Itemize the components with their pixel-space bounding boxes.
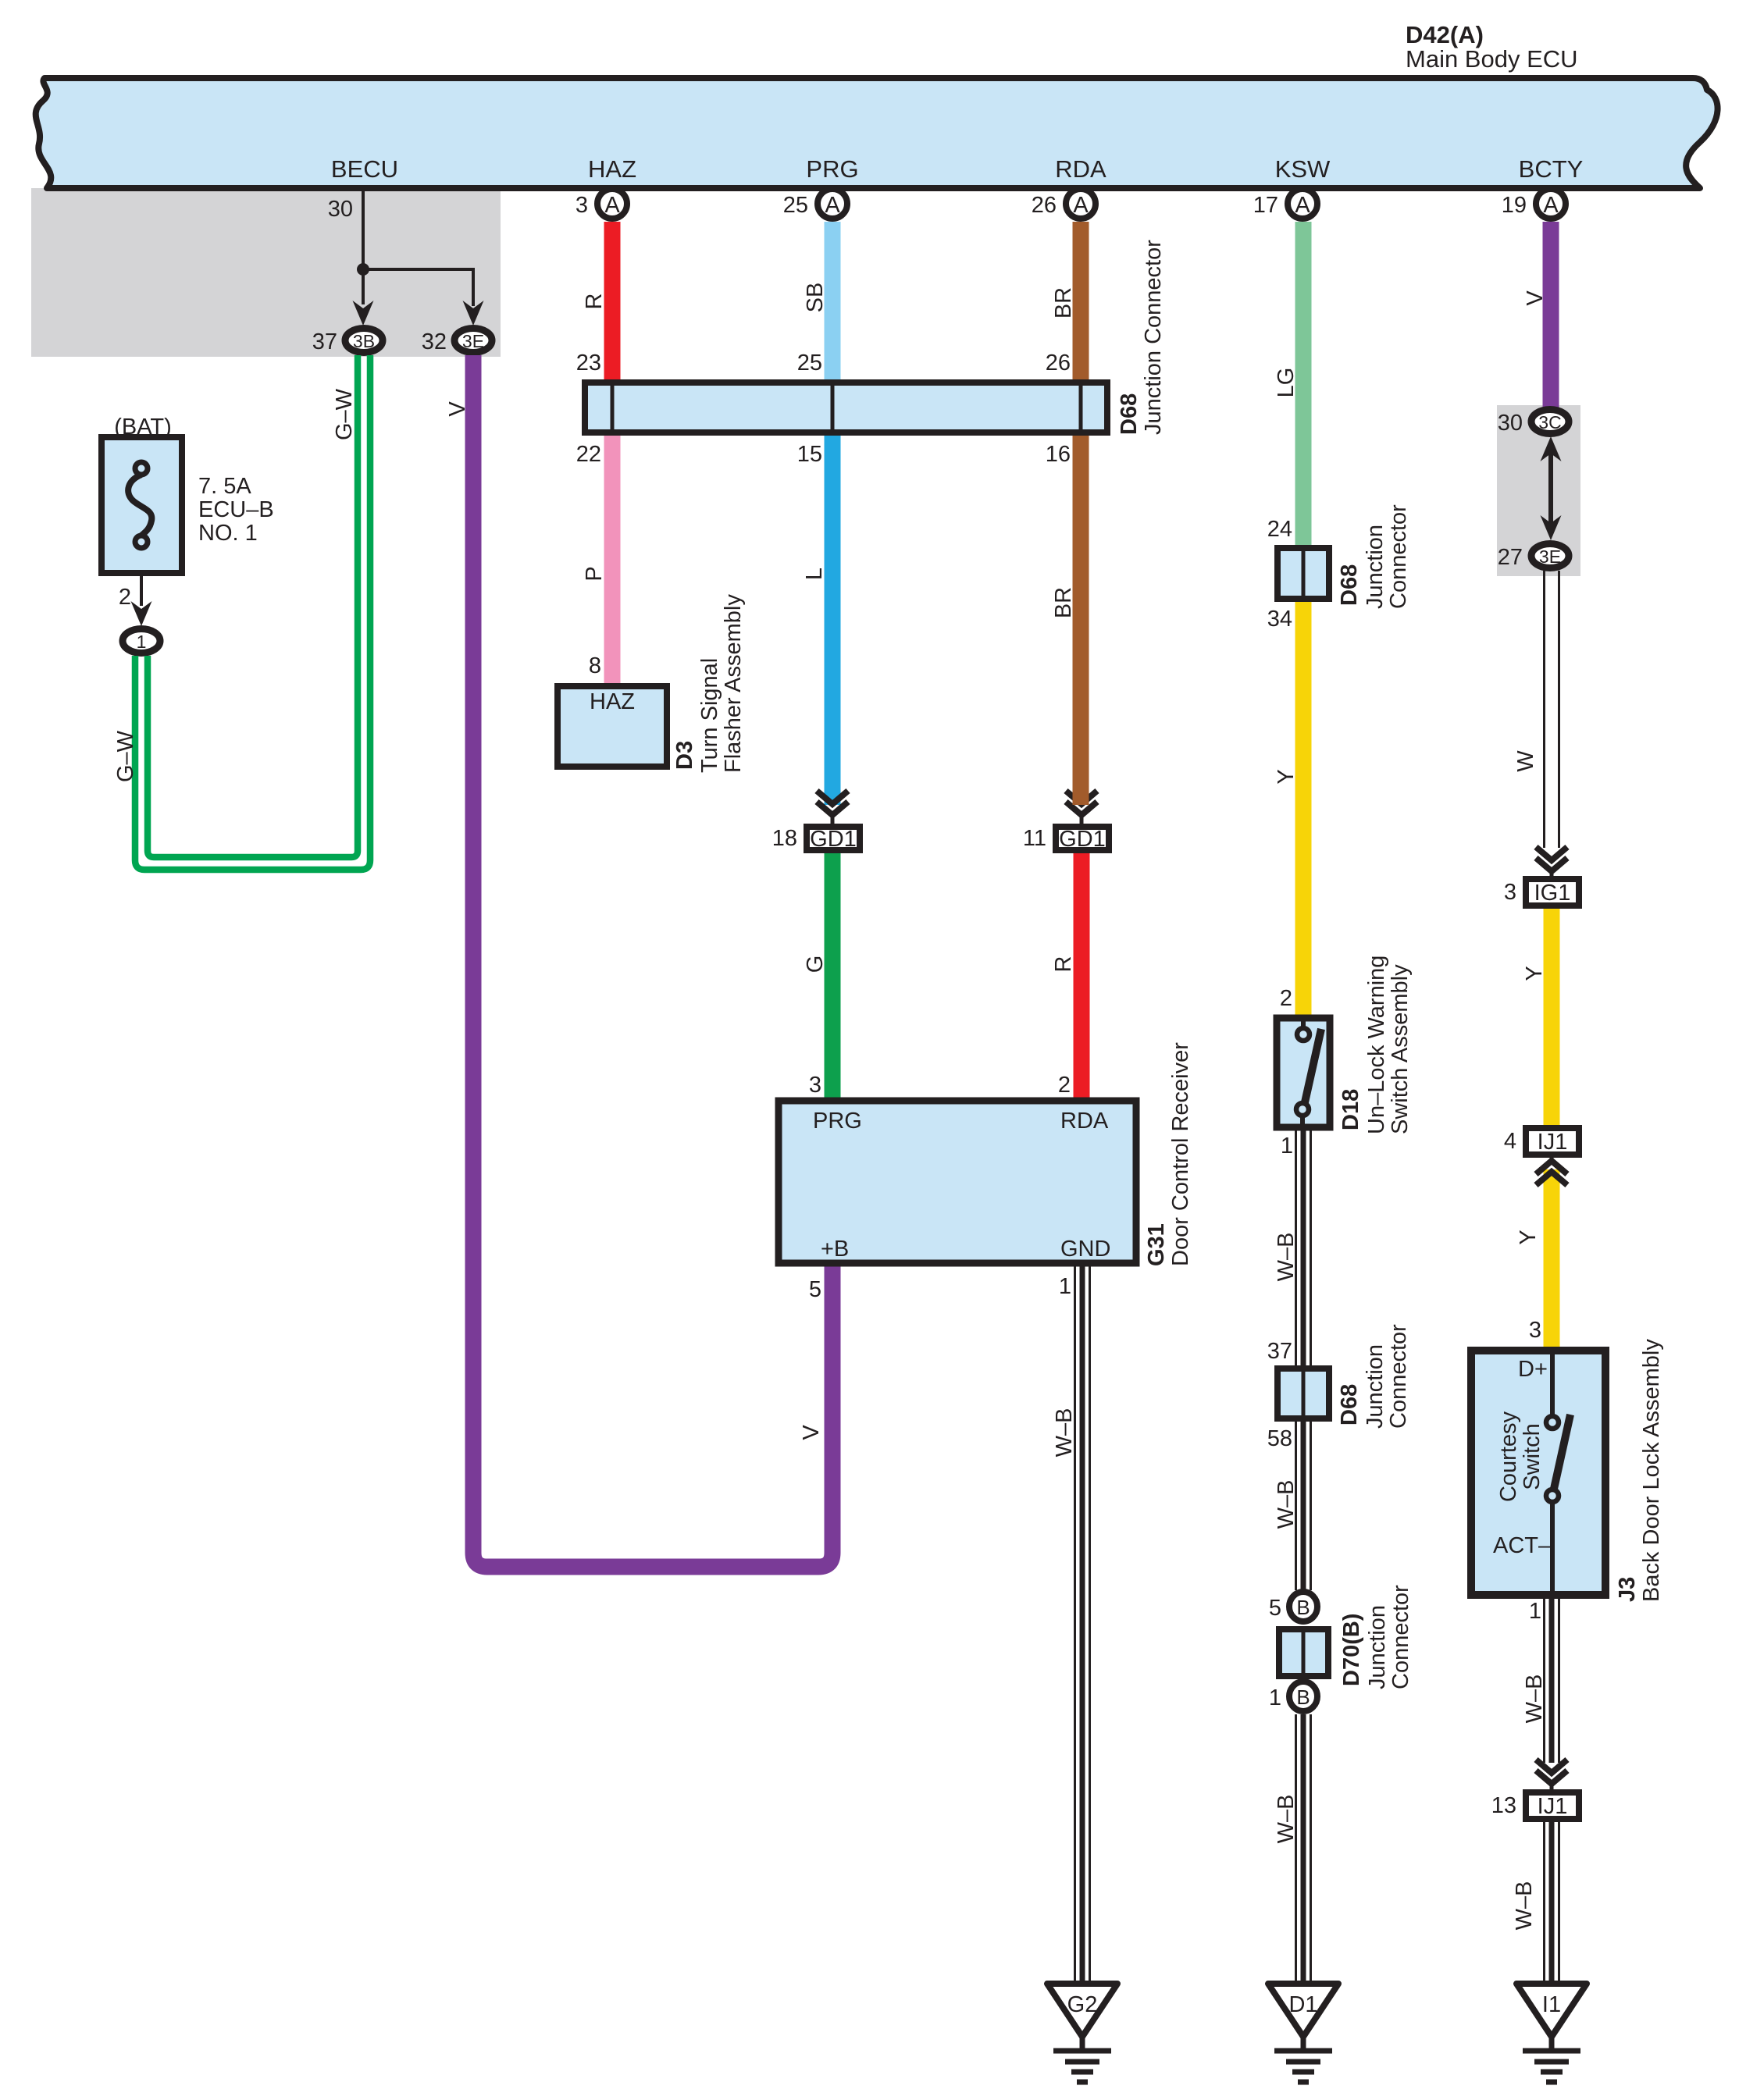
svg-text:1: 1 [1269, 1685, 1281, 1710]
svg-text:3: 3 [1529, 1318, 1541, 1343]
wire W white from 3E to IG1 [1543, 571, 1545, 848]
svg-text:D68: D68 [1337, 1384, 1362, 1426]
svg-text:11: 11 [1023, 826, 1046, 851]
svg-text:Turn Signal: Turn Signal [697, 658, 722, 773]
svg-text:BR: BR [1051, 287, 1076, 319]
svg-text:PRG: PRG [813, 1109, 862, 1134]
component box D18 un-lock warning switch [1277, 1018, 1330, 1127]
connector circle B pin 1 [1289, 1682, 1317, 1711]
svg-text:W–B: W–B [1274, 1795, 1299, 1844]
connector circle B pin 5 [1289, 1592, 1317, 1621]
svg-text:BR: BR [1051, 587, 1076, 618]
svg-text:3E: 3E [1539, 546, 1561, 567]
junction connector D68 (KSW upper) [1278, 548, 1329, 599]
D68 divider at HAZ [611, 384, 615, 431]
connector box GD1 pin 18 [807, 827, 860, 850]
svg-text:W–B: W–B [1512, 1881, 1537, 1931]
ground G2 [1047, 1984, 1117, 2037]
D68 divider at PRG [831, 384, 835, 431]
bus bar D42(A) Main Body ECU [36, 78, 1718, 188]
svg-text:D42(A): D42(A) [1406, 21, 1484, 48]
svg-text:HAZ: HAZ [590, 689, 635, 714]
wire Y yellow from D68 to D18 [1295, 602, 1312, 1017]
svg-text:B: B [1296, 1596, 1310, 1619]
svg-text:D70(B): D70(B) [1339, 1614, 1364, 1686]
wire fuse pin 2 [140, 576, 143, 606]
svg-text:W–B: W–B [1522, 1675, 1547, 1724]
svg-text:2: 2 [1280, 986, 1292, 1011]
svg-text:Y: Y [1274, 769, 1299, 784]
svg-text:Junction: Junction [1363, 525, 1388, 609]
svg-text:2: 2 [119, 585, 131, 610]
svg-text:3: 3 [576, 193, 588, 218]
svg-text:BECU: BECU [331, 155, 398, 183]
component box G31 Door Control Receiver [779, 1101, 1136, 1263]
svg-text:BCTY: BCTY [1519, 155, 1584, 183]
fuse box 7.5A ECU-B NO.1 [102, 437, 182, 573]
svg-text:D68: D68 [1337, 564, 1362, 606]
wire branch to 3E [363, 269, 473, 306]
wire G-W double green U from 3B to connector 1 (outer) [135, 355, 370, 870]
svg-text:Connector: Connector [1386, 504, 1411, 609]
svg-text:LG: LG [1274, 368, 1299, 398]
svg-text:IG1: IG1 [1534, 881, 1571, 906]
svg-text:W: W [1513, 750, 1538, 772]
svg-text:1: 1 [1059, 1274, 1071, 1299]
svg-text:Y: Y [1516, 1230, 1541, 1244]
svg-text:Junction: Junction [1365, 1605, 1390, 1689]
svg-text:Courtesy: Courtesy [1496, 1411, 1521, 1502]
svg-text:19: 19 [1502, 193, 1527, 218]
svg-text:IJ1: IJ1 [1538, 1794, 1568, 1819]
svg-text:30: 30 [328, 197, 353, 222]
svg-text:25: 25 [783, 193, 808, 218]
svg-text:B: B [1296, 1685, 1310, 1709]
D68 divider at RDA [1079, 384, 1083, 431]
connector A circle at RDA pin 26 [1066, 189, 1096, 219]
svg-text:A: A [604, 193, 620, 218]
junction connector D70(B) [1279, 1629, 1328, 1676]
svg-text:L: L [802, 568, 827, 580]
component box J3 back door lock [1471, 1351, 1605, 1595]
svg-text:1: 1 [1281, 1134, 1293, 1159]
svg-text:J3: J3 [1615, 1577, 1640, 1602]
svg-text:5: 5 [809, 1277, 821, 1302]
connector box IG1 pin 3 [1526, 879, 1579, 906]
svg-text:37: 37 [312, 329, 337, 354]
svg-text:8: 8 [589, 653, 601, 678]
svg-text:32: 32 [422, 329, 447, 354]
chevron arrow into GD1 (PRG) [817, 791, 848, 804]
chevron arrow into IJ1 lower [1536, 1760, 1567, 1773]
svg-text:ACT–: ACT– [1493, 1533, 1552, 1558]
svg-text:GD1: GD1 [1059, 827, 1106, 852]
wire W-B from GND to ground G2 [1074, 1266, 1076, 1984]
svg-text:Junction: Junction [1363, 1344, 1388, 1429]
svg-text:G31: G31 [1144, 1223, 1169, 1266]
wire SB skyblue PRG from A to D68 [825, 222, 841, 383]
svg-text:HAZ: HAZ [588, 155, 636, 183]
svg-text:Connector: Connector [1388, 1585, 1413, 1689]
wire G green from GD1 to G31 PRG [825, 853, 841, 1101]
svg-text:ECU–B: ECU–B [198, 497, 274, 522]
wire BR brown from D68 to GD1 [1073, 436, 1089, 805]
wire W-B from IJ1 to ground I1 [1543, 1822, 1545, 1984]
wire BECU pin 30 vertical [362, 189, 365, 304]
svg-text:A: A [1295, 193, 1310, 218]
svg-text:W–B: W–B [1274, 1233, 1299, 1282]
svg-text:Back Door Lock Assembly: Back Door Lock Assembly [1639, 1339, 1664, 1602]
svg-text:V: V [1523, 290, 1548, 306]
svg-text:13: 13 [1491, 1793, 1516, 1818]
arrow into 3B [353, 301, 374, 326]
svg-text:15: 15 [797, 442, 822, 467]
svg-text:G: G [803, 956, 828, 973]
svg-text:34: 34 [1267, 607, 1292, 632]
wire V purple BCTY from A to 3C [1543, 222, 1559, 409]
svg-text:25: 25 [797, 351, 822, 376]
svg-text:23: 23 [576, 351, 601, 376]
svg-text:Door Control Receiver: Door Control Receiver [1168, 1042, 1193, 1266]
svg-text:3: 3 [1504, 880, 1516, 905]
svg-text:D68: D68 [1117, 393, 1142, 435]
svg-text:Main Body ECU: Main Body ECU [1406, 45, 1578, 73]
svg-text:1: 1 [137, 632, 147, 652]
connector box IJ1 pin 13 [1526, 1792, 1579, 1819]
wire W-B from D68 lower to D70(B) [1295, 1422, 1297, 1590]
svg-text:RDA: RDA [1055, 155, 1106, 183]
connector oval 3E [454, 329, 492, 353]
courtesy switch symbol inside J3 [1550, 1354, 1555, 1415]
svg-text:16: 16 [1046, 442, 1071, 467]
svg-text:3E: 3E [462, 331, 484, 351]
svg-text:4: 4 [1504, 1129, 1516, 1154]
svg-text:7. 5A: 7. 5A [198, 474, 251, 499]
svg-text:Flasher Assembly: Flasher Assembly [721, 594, 746, 773]
svg-text:A: A [1073, 193, 1089, 218]
ground I1 [1516, 1984, 1587, 2037]
chevron arrow into IG1 [1536, 847, 1567, 860]
svg-text:G2: G2 [1067, 1992, 1098, 2017]
svg-text:Y: Y [1522, 966, 1547, 981]
svg-text:26: 26 [1032, 193, 1057, 218]
chevron arrow into GD1 (RDA) [1066, 791, 1097, 804]
component box D3 turn signal flasher [558, 686, 667, 767]
svg-text:1: 1 [1529, 1599, 1541, 1624]
svg-text:SB: SB [803, 283, 828, 313]
svg-text:30: 30 [1498, 411, 1523, 436]
svg-text:I1: I1 [1542, 1992, 1561, 2017]
grey highlight box BCTY 3C/3E area [1497, 405, 1580, 576]
svg-text:P: P [582, 566, 607, 581]
svg-text:3B: 3B [353, 331, 375, 351]
svg-text:18: 18 [772, 826, 797, 851]
svg-text:RDA: RDA [1060, 1109, 1109, 1134]
connector A circle at HAZ pin 3 [597, 189, 627, 219]
svg-text:G–W: G–W [113, 730, 138, 782]
grey highlight box BECU area [31, 188, 501, 357]
svg-text:24: 24 [1267, 517, 1292, 542]
svg-text:V: V [799, 1425, 824, 1440]
svg-text:W–B: W–B [1052, 1408, 1077, 1458]
wire V purple from 3E down right and up to +B [473, 355, 832, 1567]
wire LG light green KSW from A to D68 [1295, 222, 1312, 548]
svg-text:A: A [1543, 193, 1559, 218]
svg-text:GD1: GD1 [810, 827, 857, 852]
connector oval 3E (BCTY) [1531, 544, 1569, 568]
wire BR brown RDA from A to D68 [1073, 222, 1089, 383]
svg-text:Junction Connector: Junction Connector [1141, 240, 1166, 435]
svg-text:22: 22 [576, 442, 601, 467]
junction connector D68 (KSW lower) [1278, 1369, 1329, 1418]
svg-text:W–B: W–B [1274, 1480, 1299, 1529]
svg-text:R: R [1051, 956, 1076, 973]
connector A circle at BCTY pin 19 [1536, 189, 1566, 219]
svg-text:Un–Lock Warning: Un–Lock Warning [1364, 956, 1389, 1134]
svg-text:R: R [582, 294, 607, 310]
svg-text:D18: D18 [1338, 1089, 1363, 1130]
junction dot on BECU wire [357, 263, 369, 276]
svg-text:26: 26 [1046, 351, 1071, 376]
wire Y yellow from IJ1 to J3 [1544, 1169, 1560, 1350]
svg-text:KSW: KSW [1275, 155, 1331, 183]
connector A circle at KSW pin 17 [1288, 189, 1317, 219]
svg-text:NO. 1: NO. 1 [198, 521, 258, 546]
svg-text:Connector: Connector [1386, 1324, 1411, 1429]
connector oval 1 [123, 629, 160, 653]
connector box IJ1 pin 4 [1526, 1128, 1579, 1155]
connector oval 3B [345, 329, 383, 353]
svg-text:D1: D1 [1288, 1992, 1317, 2017]
fuse element symbol [135, 462, 148, 475]
svg-text:Switch: Switch [1520, 1423, 1545, 1490]
svg-text:27: 27 [1498, 545, 1523, 570]
svg-text:G–W: G–W [332, 388, 357, 440]
connector oval 3C [1531, 410, 1569, 434]
svg-text:3C: 3C [1538, 412, 1561, 432]
svg-text:2: 2 [1058, 1073, 1071, 1098]
wire Y yellow from IG1 to IJ1 [1544, 909, 1560, 1128]
wire W-B from J3 to IJ1 lower [1543, 1599, 1545, 1763]
ground D1 [1268, 1984, 1338, 2037]
wire R red from GD1 to G31 RDA [1074, 853, 1090, 1101]
svg-text:D3: D3 [672, 741, 697, 770]
connector A circle at PRG pin 25 [818, 189, 847, 219]
svg-text:17: 17 [1253, 193, 1278, 218]
arrow into 3E [463, 301, 484, 326]
wire L blue from D68 to GD1 [825, 436, 841, 805]
svg-text:PRG: PRG [806, 155, 858, 183]
svg-text:3: 3 [809, 1073, 821, 1098]
wire W-B from D18 to D68 lower [1295, 1130, 1297, 1369]
wire P pink from D68 to D3 [604, 436, 621, 686]
svg-text:IJ1: IJ1 [1538, 1130, 1568, 1155]
svg-text:Switch Assembly: Switch Assembly [1388, 964, 1413, 1134]
arrow into connector 1 [131, 601, 152, 626]
svg-text:D+: D+ [1518, 1357, 1548, 1382]
switch symbol inside D18 [1301, 1020, 1306, 1027]
svg-text:37: 37 [1267, 1339, 1292, 1364]
svg-text:V: V [445, 401, 470, 417]
wire W-B from D70(B) to ground D1 [1295, 1714, 1297, 1984]
wire G-W double green U (inner) [148, 355, 358, 857]
svg-text:+B: +B [821, 1237, 849, 1262]
svg-text:5: 5 [1269, 1596, 1281, 1621]
double arrow between 3C and 3E [1548, 449, 1553, 529]
svg-text:A: A [825, 193, 840, 218]
connector box GD1 pin 11 [1056, 827, 1109, 850]
svg-text:58: 58 [1267, 1426, 1292, 1451]
chevron arrow up into IJ1 [1550, 1155, 1554, 1163]
svg-text:GND: GND [1060, 1237, 1110, 1262]
wire R red HAZ from A to D68 [604, 222, 621, 383]
junction connector D68 long box [585, 383, 1107, 432]
